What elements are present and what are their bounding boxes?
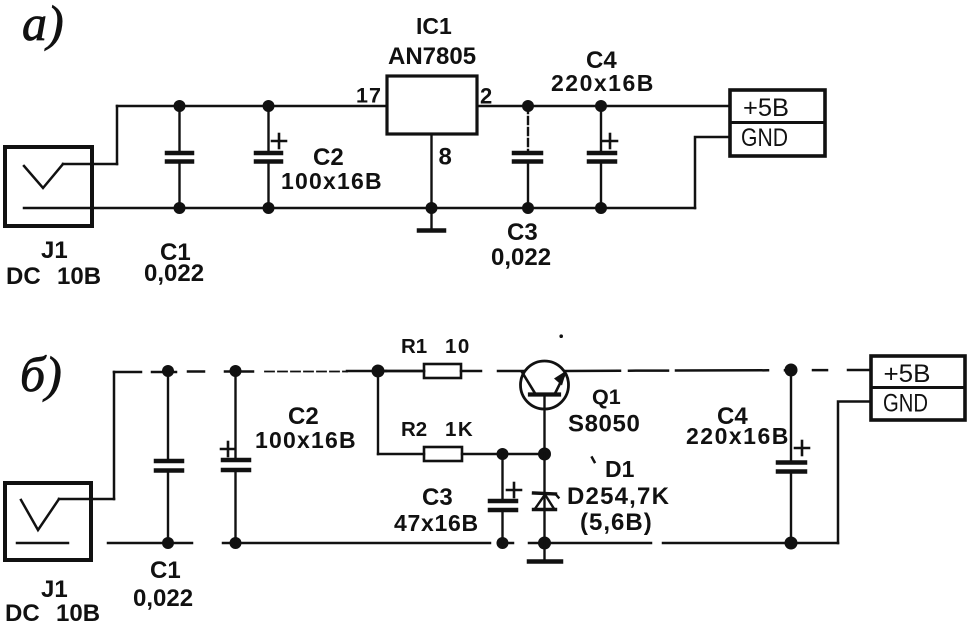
- svg-text:C3: C3: [422, 484, 453, 511]
- svg-text:1K: 1K: [445, 418, 474, 441]
- wire GND box b to bottom rail: [838, 402, 871, 544]
- plus sign C4a: [603, 134, 617, 148]
- svg-text:a): a): [22, 0, 64, 51]
- node top C2a: [263, 100, 275, 112]
- node bottom C3a: [522, 202, 534, 214]
- wire IC1 pin2 to +5B box: [477, 105, 730, 108]
- plus sign C2a: [272, 134, 286, 148]
- wire node to R1: [378, 370, 424, 372]
- top rail b (dashed scan segments): [114, 371, 386, 372]
- svg-text:C2: C2: [288, 403, 319, 430]
- capacitor C2 (circuit b, electrolytic): [223, 371, 249, 543]
- top rail b right segment (emitter to +5B box): [566, 370, 871, 371]
- svg-text:C3: C3: [507, 219, 538, 246]
- svg-text:J1: J1: [41, 576, 68, 603]
- svg-text:47x16B: 47x16B: [394, 510, 479, 536]
- node bottom C4b: [785, 537, 798, 550]
- resistor R1 body: [424, 364, 461, 378]
- svg-text:100x16B: 100x16B: [281, 168, 383, 194]
- svg-text:R1: R1: [401, 335, 427, 358]
- node top C1a: [174, 100, 186, 112]
- bottom rail a: [24, 207, 695, 210]
- node top C4b: [785, 364, 798, 377]
- capacitor C2 (circuit a, electrolytic): [256, 106, 281, 208]
- svg-text:0,022: 0,022: [144, 260, 204, 287]
- transistor Q1 circle: [521, 361, 569, 409]
- wire node to R1 and R1 to transistor: [386, 370, 523, 373]
- output connector divider a: [730, 121, 825, 124]
- jack symbol inside J1a: [24, 164, 63, 188]
- node top C4a: [595, 100, 607, 112]
- svg-text:GND: GND: [741, 124, 788, 152]
- node zener bottom rail: [538, 537, 551, 550]
- capacitor C4 (circuit b, electrolytic): [778, 370, 805, 543]
- wire R2 to C3/base nodes: [462, 453, 545, 455]
- wire node down to R2 row: [377, 371, 379, 454]
- node bottom C4a: [595, 202, 607, 214]
- ground symbol b: [529, 543, 561, 562]
- node R1/R2 split on top rail: [372, 365, 385, 378]
- svg-text:100x16B: 100x16B: [255, 427, 357, 453]
- output connector box b: [871, 356, 965, 420]
- node R2/C3 junction: [497, 448, 509, 460]
- svg-text:+5B: +5B: [743, 94, 789, 122]
- svg-text:10B: 10B: [56, 600, 100, 622]
- svg-text:C1: C1: [150, 557, 181, 584]
- capacitor C1 (circuit b): [156, 371, 182, 543]
- svg-text:0,022: 0,022: [491, 244, 551, 271]
- svg-text:AN7805: AN7805: [388, 43, 476, 70]
- svg-text:0,022: 0,022: [133, 585, 193, 612]
- node bottom C1b: [162, 537, 174, 549]
- svg-text:J1: J1: [41, 237, 68, 264]
- svg-text:10: 10: [445, 335, 471, 358]
- capacitor C3 (circuit b, electrolytic): [490, 454, 516, 543]
- wire J1a pin to riser: [63, 163, 117, 166]
- svg-text:220x16B: 220x16B: [551, 70, 655, 96]
- wire riser J1a to top rail: [116, 106, 119, 164]
- transistor Q1 base lead down: [543, 396, 545, 454]
- connector J1 (circuit a): [5, 147, 92, 226]
- svg-text:(5,6B): (5,6B): [580, 509, 653, 536]
- output connector divider b: [871, 386, 965, 389]
- plus sign C3b: [507, 483, 521, 497]
- node bottom C1a: [174, 202, 186, 214]
- svg-text:17: 17: [356, 84, 382, 108]
- connector J1 (circuit b): [5, 483, 91, 560]
- resistor R2 body: [424, 447, 462, 461]
- wire J1b pin to riser: [59, 498, 114, 501]
- svg-text:DC: DC: [6, 263, 41, 290]
- svg-text:S8050: S8050: [568, 411, 640, 438]
- capacitor C3 (circuit a): [514, 106, 541, 208]
- svg-text:IC1: IC1: [416, 13, 452, 39]
- ink tick left of D1: [592, 458, 595, 463]
- plus sign C4b: [795, 441, 809, 455]
- output connector box a: [730, 90, 825, 156]
- transistor Q1 collector stroke: [522, 372, 535, 393]
- node top C1b: [162, 365, 174, 377]
- svg-text:10B: 10B: [57, 263, 101, 290]
- wire top rail a (input to IC1 pin 17): [117, 105, 387, 108]
- bottom rail b (dashed scan segments): [17, 542, 838, 545]
- node top C3a: [522, 100, 534, 112]
- ground symbol a: [419, 208, 444, 231]
- node C3 bottom rail: [497, 537, 509, 549]
- node bottom C2a: [263, 202, 275, 214]
- zener diode D1: [534, 454, 559, 543]
- top rail b thin dashed middle run: [265, 371, 347, 373]
- pin 8 wire: [430, 134, 432, 208]
- wire node to R2: [378, 453, 424, 455]
- node pin8 bottom rail: [426, 202, 438, 214]
- wire riser J1b to top rail: [113, 372, 116, 499]
- svg-text:2: 2: [480, 84, 492, 109]
- ink speck above Q1: [559, 334, 563, 338]
- svg-text:R2: R2: [401, 418, 427, 441]
- svg-text:DC: DC: [5, 600, 40, 622]
- node bottom C2b: [230, 537, 242, 549]
- transistor Q1 base bar: [530, 392, 559, 396]
- svg-text:GND: GND: [883, 390, 928, 418]
- svg-text:8: 8: [439, 144, 452, 171]
- jack symbol inside J1b: [21, 499, 59, 530]
- svg-text:б): б): [20, 346, 62, 402]
- svg-text:D254,7K: D254,7K: [567, 483, 670, 510]
- svg-text:+5B: +5B: [884, 360, 931, 388]
- capacitor C1 (circuit a): [167, 106, 192, 208]
- wire GND box a to bottom rail: [695, 137, 730, 208]
- node base/zener junction: [538, 448, 551, 461]
- svg-text:D1: D1: [605, 456, 635, 482]
- svg-text:220x16B: 220x16B: [686, 423, 790, 449]
- plus sign C2b: [221, 442, 235, 456]
- node top C2b: [230, 365, 242, 377]
- svg-text:Q1: Q1: [592, 385, 621, 409]
- svg-text:C2: C2: [313, 144, 344, 171]
- transistor Q1 emitter stroke with arrow: [554, 371, 567, 393]
- IC1 regulator box: [387, 76, 477, 134]
- capacitor C4 (circuit a, electrolytic): [589, 106, 615, 208]
